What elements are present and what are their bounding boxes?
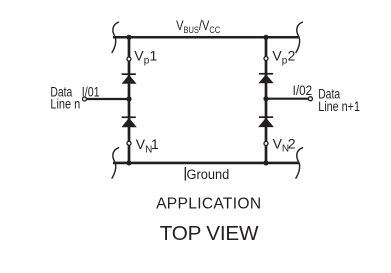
svg-text:Vp1: Vp1 — [134, 47, 157, 66]
diode D1 (left top) — [122, 73, 137, 83]
junction I/O1 — [126, 96, 131, 101]
wire right branch — [265, 37, 268, 163]
junction I/O2 — [263, 96, 268, 101]
junction top-left — [126, 35, 131, 40]
break mark bottom-left — [112, 148, 119, 178]
node VN1 circle — [127, 141, 131, 145]
diode D3 (right top) — [258, 73, 273, 83]
svg-text:Ground: Ground — [187, 167, 230, 182]
node VN2 circle — [264, 142, 268, 146]
label VP2 — [272, 47, 295, 66]
diode D2 (left bottom) — [121, 116, 136, 127]
svg-text:Line n: Line n — [50, 96, 80, 112]
break mark top-right — [296, 22, 303, 52]
label Data Line n — [50, 83, 80, 111]
node VP1 circle — [127, 57, 131, 61]
svg-text:Vp2: Vp2 — [272, 47, 295, 66]
svg-text:TOP VIEW: TOP VIEW — [160, 222, 259, 245]
break mark top-left — [112, 22, 119, 52]
svg-text:VN1: VN1 — [136, 136, 159, 155]
label VN1 — [136, 136, 159, 155]
wire top rail VBUS/VCC — [113, 36, 299, 39]
junction bottom-right — [263, 160, 268, 165]
svg-text:APPLICATION: APPLICATION — [156, 196, 261, 213]
wire bottom rail Ground — [113, 162, 299, 165]
diode D4 (right bottom) — [258, 116, 274, 127]
label VP1 — [134, 47, 157, 66]
svg-text:I/02: I/02 — [293, 82, 313, 98]
node VP2 circle — [264, 57, 268, 61]
wire I/O1 stub — [87, 98, 130, 100]
svg-text:I/01: I/01 — [82, 83, 100, 99]
label VBUS/VCC — [176, 18, 220, 35]
junction top-right — [263, 35, 268, 40]
wire left branch — [128, 37, 131, 163]
terminal I/O2 circle — [308, 97, 312, 101]
wire I/O2 stub — [266, 98, 308, 100]
label Ground tick — [184, 167, 186, 181]
terminal I/O1 circle — [83, 97, 87, 101]
label Data Line n+1 — [318, 86, 360, 114]
svg-text:VN2: VN2 — [273, 135, 296, 154]
break mark bottom-right — [296, 148, 303, 178]
junction bottom-left — [126, 160, 131, 165]
svg-text:VBUS/VCC: VBUS/VCC — [176, 18, 220, 35]
label VN2 — [273, 135, 296, 154]
svg-text:Line n+1: Line n+1 — [318, 98, 360, 114]
